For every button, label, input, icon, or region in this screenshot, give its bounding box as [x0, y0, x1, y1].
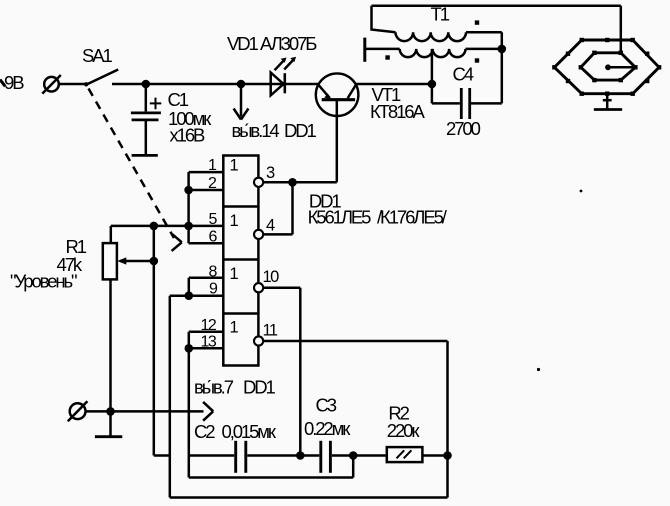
svg-text:DD1: DD1	[243, 377, 276, 398]
svg-text:КТ816А: КТ816А	[370, 101, 425, 122]
svg-text:х16В: х16В	[170, 125, 206, 146]
svg-text:12: 12	[201, 317, 217, 334]
svg-text:С3: С3	[316, 395, 337, 416]
svg-text:13: 13	[201, 334, 217, 351]
svg-text:вы́в.14: вы́в.14	[232, 120, 280, 141]
svg-text:0.22мк: 0.22мк	[304, 418, 351, 439]
svg-text:SA1: SA1	[82, 45, 112, 66]
svg-text:вы́в.7: вы́в.7	[194, 377, 234, 398]
svg-text:К561ЛЕ5: К561ЛЕ5	[308, 207, 372, 228]
svg-text:Т1: Т1	[431, 4, 450, 25]
svg-text:/К176ЛЕ5/: /К176ЛЕ5/	[377, 207, 448, 228]
svg-text:9В: 9В	[4, 72, 24, 93]
svg-text:С4: С4	[453, 64, 474, 85]
svg-text:10: 10	[263, 268, 280, 286]
svg-text:VD1: VD1	[227, 33, 258, 54]
svg-text:DD1: DD1	[284, 120, 317, 141]
svg-text:АЛ307Б: АЛ307Б	[260, 33, 317, 54]
svg-text:С1: С1	[168, 89, 189, 110]
svg-text:"Уровень": "Уровень"	[10, 271, 77, 292]
svg-text:2700: 2700	[446, 118, 481, 139]
svg-text:С2: С2	[194, 421, 215, 442]
svg-text:11: 11	[263, 322, 278, 340]
svg-text:220к: 220к	[387, 420, 421, 441]
svg-text:0,015мк: 0,015мк	[222, 421, 277, 442]
